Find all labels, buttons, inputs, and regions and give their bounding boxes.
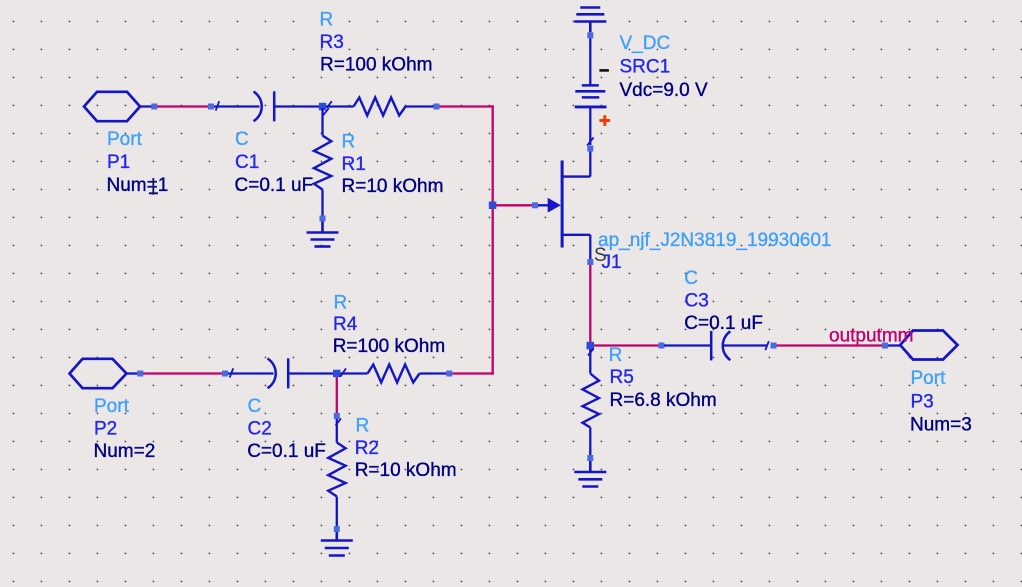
svg-text:R: R — [320, 10, 334, 31]
node square at R5 pin2 — [587, 455, 593, 461]
resistor R3 — [326, 98, 434, 116]
svg-text:R2: R2 — [355, 438, 379, 459]
wire P1 to C1 — [157, 105, 209, 107]
port P3 — [888, 331, 958, 360]
wire R4 to bus — [452, 372, 494, 374]
pin tick R4.1 — [340, 368, 346, 376]
transistor J1 (n-JFET) — [538, 152, 590, 260]
pin tick J1 drain — [587, 137, 594, 145]
svg-text:Port: Port — [107, 129, 143, 150]
svg-text:R: R — [609, 345, 623, 366]
node A junction square (C1/R3/R1) — [319, 103, 327, 111]
node square at R2 pin1 — [334, 413, 340, 419]
pin tick R3.1 — [327, 101, 332, 108]
svg-text:R4: R4 — [333, 314, 358, 335]
resistor R4 — [341, 365, 447, 383]
svg-text:R3: R3 — [320, 32, 344, 53]
node square at C3 pin1 — [658, 343, 664, 349]
svg-text:Num=1: Num=1 — [107, 175, 169, 196]
port P2 — [70, 359, 138, 388]
svg-text:C=0.1 uF: C=0.1 uF — [684, 313, 763, 334]
pin square J1 gate — [532, 202, 538, 208]
svg-text:C3: C3 — [685, 291, 709, 312]
svg-text:C: C — [248, 396, 262, 417]
wire bus to gate — [496, 204, 533, 206]
svg-text:R=100 kOhm: R=100 kOhm — [333, 336, 445, 357]
svg-text:Vdc=9.0 V: Vdc=9.0 V — [620, 80, 709, 101]
wire C3 to P3 (net outputmm) — [777, 344, 883, 346]
svg-text:C: C — [235, 129, 249, 150]
svg-text:Port: Port — [94, 396, 130, 417]
ground (R2) — [321, 532, 353, 556]
node square at C1 pin1 — [208, 104, 214, 110]
pin square P3 — [882, 343, 888, 349]
node square at R1 pin2 — [320, 216, 326, 222]
svg-text:C=0.1 uF: C=0.1 uF — [235, 175, 314, 196]
svg-text:Num=3: Num=3 — [910, 414, 972, 435]
node square at R2 pin2 — [334, 526, 340, 532]
pin square J1 source — [587, 259, 593, 265]
svg-text:R1: R1 — [342, 154, 366, 175]
wire R3 to bus — [440, 105, 494, 107]
V_DC source SRC1 — [575, 38, 607, 145]
wire P2 to C2 — [143, 372, 223, 374]
pin square P2 — [137, 371, 143, 377]
svg-text:outputmm: outputmm — [829, 326, 913, 347]
pin tick R2.1 — [336, 419, 342, 426]
ground (R1) — [307, 222, 339, 247]
wire node C to C3 — [594, 344, 659, 346]
resistor R2 — [328, 419, 345, 526]
svg-text:R: R — [334, 292, 348, 313]
svg-text:ap_njf_J2N3819_19930601: ap_njf_J2N3819_19930601 — [598, 230, 832, 251]
resistor R1 — [314, 108, 331, 216]
svg-text:P1: P1 — [107, 152, 130, 173]
svg-text:R=10 kOhm: R=10 kOhm — [355, 460, 457, 481]
svg-text:C1: C1 — [235, 152, 259, 173]
svg-text:R: R — [356, 416, 370, 437]
wire node D down to R2 — [336, 377, 338, 414]
node B junction square (bus to gate) — [489, 202, 497, 210]
ground (R5) — [574, 461, 606, 487]
wire J1 source down — [589, 265, 591, 347]
pin tick R5.1 — [588, 348, 594, 355]
svg-text:J1: J1 — [602, 252, 622, 273]
resistor R5 — [583, 349, 600, 455]
capacitor C2 — [228, 358, 333, 388]
capacitor C1 — [214, 91, 319, 121]
pin square P1 — [151, 104, 157, 110]
svg-text:R=100 kOhm: R=100 kOhm — [320, 55, 432, 76]
svg-text:P3: P3 — [911, 392, 934, 413]
capacitor C3 — [664, 331, 769, 360]
wire bus vertical — [492, 105, 494, 374]
svg-text:Num=2: Num=2 — [94, 441, 156, 462]
node square at C2 pin1 — [222, 371, 228, 377]
svg-text:V_DC: V_DC — [620, 33, 671, 54]
svg-text:P2: P2 — [94, 419, 117, 440]
svg-text:Port: Port — [911, 368, 947, 389]
node square at J1 drain — [587, 146, 593, 152]
minus sign of SRC1 — [599, 69, 609, 72]
node square at R4 pin2 — [446, 371, 452, 377]
node D junction square (C2/R4/R2) — [333, 370, 341, 378]
svg-text:C=0.1 uF: C=0.1 uF — [247, 441, 326, 462]
svg-text:SRC1: SRC1 — [620, 56, 671, 77]
svg-text:C2: C2 — [248, 418, 272, 439]
stray ground marker over Num=1 — [149, 178, 158, 195]
node square at R3 pin2 — [434, 104, 440, 110]
svg-text:R: R — [342, 132, 356, 153]
power ground (top rail) — [574, 8, 606, 33]
plus sign of SRC1 — [599, 115, 610, 126]
node square at C3 pin2 — [771, 343, 777, 349]
svg-text:R=10 kOhm: R=10 kOhm — [342, 176, 444, 197]
svg-text:R=6.8 kOhm: R=6.8 kOhm — [610, 390, 717, 411]
pin tick R1.1 — [323, 108, 329, 115]
node square at SRC1 pin2 — [587, 32, 593, 38]
svg-text:C: C — [684, 268, 698, 289]
node C junction square (source/R5/C3) — [587, 342, 595, 350]
port P1 — [84, 92, 152, 121]
svg-text:R5: R5 — [610, 367, 634, 388]
